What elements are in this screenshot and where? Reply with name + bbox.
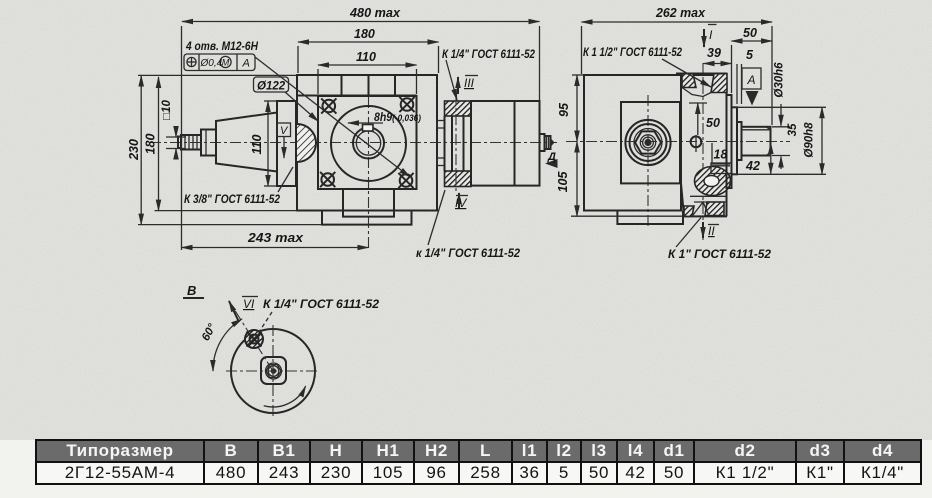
top port left wedge bbox=[682, 74, 696, 88]
roughness symbol V bbox=[277, 123, 291, 137]
dim 110 top bbox=[318, 64, 417, 66]
view arrow III bbox=[457, 77, 459, 94]
bottom port left wedge bbox=[684, 206, 694, 216]
svg-text:95: 95 bbox=[557, 102, 571, 117]
side port thread block bbox=[711, 163, 732, 174]
svg-text:Ø0,4: Ø0,4 bbox=[200, 58, 223, 69]
bolt hole 4 bbox=[398, 173, 413, 188]
spec table bbox=[35, 439, 922, 485]
svg-text:243 max: 243 max bbox=[247, 231, 304, 245]
side port under line bbox=[690, 195, 727, 197]
svg-text:50: 50 bbox=[706, 116, 720, 130]
svg-text:А: А bbox=[242, 58, 250, 70]
svg-text:39: 39 bbox=[707, 46, 721, 60]
shaft thread section bbox=[181, 135, 201, 150]
dia 122 frame bbox=[254, 77, 289, 92]
shaft bore bbox=[353, 128, 384, 159]
bolt hole 2 bbox=[399, 97, 414, 112]
shaft cone bbox=[216, 113, 277, 172]
valve box bbox=[471, 101, 540, 186]
v2 block bottom bbox=[684, 215, 727, 217]
svg-text:II: II bbox=[708, 224, 715, 238]
leader K1 1/2 bbox=[662, 59, 711, 87]
dim 480max bbox=[182, 21, 540, 23]
dim 42 bbox=[770, 143, 772, 174]
dim 105 bbox=[576, 142, 578, 217]
mounting plate bbox=[318, 96, 417, 189]
B 60 deg arc bbox=[213, 319, 242, 371]
B radial 60 centerline bbox=[229, 301, 273, 371]
bolt hole 3 bbox=[320, 172, 335, 187]
top port bore bottom bbox=[682, 88, 711, 97]
svg-text:К 1/4" ГОСТ 6111-52: К 1/4" ГОСТ 6111-52 bbox=[263, 299, 380, 311]
base bottom extension line bbox=[138, 224, 322, 226]
vertical centerline bbox=[368, 97, 370, 250]
v2 circles vertical centerline bbox=[647, 95, 649, 229]
svg-text:480 max: 480 max bbox=[349, 6, 401, 20]
v2 inner housing bbox=[621, 102, 680, 183]
B centerlines bbox=[226, 370, 320, 372]
shaft chamfer bbox=[766, 127, 771, 130]
keyway bbox=[363, 125, 374, 132]
B center square bbox=[261, 357, 286, 384]
dim 110 flange bbox=[267, 101, 269, 186]
bearing cover bbox=[727, 95, 732, 188]
bottom tab bbox=[343, 189, 394, 217]
svg-text:50: 50 bbox=[743, 26, 757, 40]
B center circles bbox=[266, 363, 282, 379]
top pad strip line bbox=[297, 95, 417, 97]
GDT frame bbox=[184, 54, 255, 71]
boss circle bbox=[331, 106, 406, 181]
fitting upper hatched flange bbox=[445, 101, 472, 116]
nut circles bbox=[625, 120, 670, 165]
hex nut bbox=[635, 131, 661, 153]
B port circle bbox=[245, 330, 263, 348]
top port face line bbox=[676, 73, 727, 75]
svg-text:110: 110 bbox=[356, 50, 376, 64]
v2 block top edge bbox=[681, 74, 727, 76]
dim 50 mid bbox=[697, 103, 699, 135]
v2 body bbox=[584, 75, 681, 211]
leader K1 bbox=[676, 218, 701, 248]
dim 180 left bbox=[158, 77, 160, 211]
dim 18 bbox=[711, 143, 713, 164]
svg-text:230: 230 bbox=[127, 139, 141, 161]
leader dia122 bbox=[285, 92, 319, 122]
dim 50 top bbox=[732, 40, 773, 42]
side port boss hatched bbox=[695, 167, 731, 196]
svg-text:180: 180 bbox=[144, 134, 158, 155]
view arrow II bbox=[702, 222, 704, 238]
svg-text:III: III bbox=[464, 76, 475, 90]
view arrow Д bbox=[545, 159, 558, 168]
dim 262max bbox=[582, 21, 773, 23]
svg-text:Д: Д bbox=[547, 151, 556, 163]
svg-text:180: 180 bbox=[354, 27, 375, 41]
svg-text:В: В bbox=[187, 283, 196, 298]
bottom port inner line bbox=[694, 201, 727, 203]
svg-text:VI: VI bbox=[243, 297, 255, 311]
dim 180 top bbox=[298, 41, 439, 43]
svg-text:К 1 1/2" ГОСТ 6111-52: К 1 1/2" ГОСТ 6111-52 bbox=[583, 47, 682, 59]
dim 243max bbox=[182, 247, 369, 249]
dim 39 bbox=[704, 63, 732, 65]
B rotation arc bbox=[264, 386, 306, 407]
leader K1/4 bottom bbox=[428, 190, 445, 245]
leader K1/4 top bbox=[446, 60, 457, 100]
view arrow IV bbox=[458, 193, 460, 208]
body bottom extension line bbox=[155, 210, 298, 212]
fitting lower hatched flange bbox=[445, 171, 472, 187]
dim 5 bbox=[736, 64, 738, 104]
bolt hole 1 bbox=[321, 98, 336, 113]
seal boss (hatched half disc) bbox=[297, 124, 316, 162]
mounting flange bbox=[277, 101, 296, 186]
leader 4xM12 to bolt bbox=[255, 57, 410, 177]
svg-text:5: 5 bbox=[746, 48, 754, 62]
svg-text:4 отв. М12-6Н: 4 отв. М12-6Н bbox=[185, 41, 258, 53]
svg-text:М: М bbox=[222, 58, 230, 68]
v2 horizontal centerline bbox=[566, 141, 790, 143]
bottom port right wedge bbox=[705, 202, 724, 216]
svg-text:18: 18 bbox=[714, 148, 728, 162]
pump body outline bbox=[297, 75, 437, 211]
bottom port drill cone bbox=[692, 202, 709, 216]
svg-text:К 3/8" ГОСТ 6111-52: К 3/8" ГОСТ 6111-52 bbox=[184, 194, 281, 206]
svg-text:Ø122: Ø122 bbox=[257, 81, 286, 93]
grease nipple bbox=[540, 134, 545, 151]
ext line right bbox=[539, 26, 541, 101]
shaft tip bbox=[178, 137, 181, 149]
fitting centerline bbox=[455, 94, 457, 194]
connector tabs bbox=[437, 121, 445, 129]
svg-text:IV: IV bbox=[455, 196, 467, 210]
svg-text:Ø90h8: Ø90h8 bbox=[804, 122, 816, 158]
dim 95 bbox=[576, 75, 578, 142]
B tick marks bbox=[267, 328, 279, 330]
B leader bbox=[259, 312, 272, 332]
svg-text:110: 110 bbox=[250, 134, 264, 154]
B big circle bbox=[231, 329, 315, 413]
top port right wedge bbox=[711, 74, 727, 93]
side fitting tube bbox=[444, 116, 446, 171]
base plate bbox=[322, 211, 412, 225]
dim 230 left bbox=[140, 76, 142, 225]
main horizontal centerline bbox=[150, 142, 557, 144]
top pad dividers bbox=[341, 75, 343, 96]
svg-text:8h9(-0,036): 8h9(-0,036) bbox=[374, 112, 421, 124]
view arrow I bbox=[703, 29, 705, 47]
v2 foot bbox=[617, 211, 683, 225]
B view arrow VI bbox=[229, 301, 239, 322]
view box A bbox=[742, 68, 761, 89]
ext line left (shaft tip plane) bbox=[181, 26, 183, 250]
svg-text:Ø30h6: Ø30h6 bbox=[774, 62, 786, 98]
shaft collar bbox=[201, 130, 216, 156]
valve box divider bbox=[514, 101, 516, 186]
svg-text:262 max: 262 max bbox=[655, 6, 706, 20]
keyway leader bbox=[348, 122, 383, 124]
shaft bbox=[742, 127, 771, 156]
svg-text:К 1/4" ГОСТ 6111-52: К 1/4" ГОСТ 6111-52 bbox=[442, 49, 536, 61]
svg-text:к 1/4" ГОСТ 6111-52: к 1/4" ГОСТ 6111-52 bbox=[416, 248, 521, 260]
v2 port centerline bbox=[702, 63, 704, 240]
leader K3/8 bbox=[278, 167, 293, 192]
svg-text:105: 105 bbox=[556, 171, 570, 193]
svg-text:42: 42 bbox=[745, 159, 760, 173]
svg-text:К 1" ГОСТ 6111-52: К 1" ГОСТ 6111-52 bbox=[668, 249, 772, 261]
svg-text:□10: □10 bbox=[161, 100, 173, 120]
svg-text:35: 35 bbox=[787, 123, 799, 136]
small hole on axis bbox=[691, 135, 702, 152]
v2 port block right edge bbox=[726, 75, 728, 216]
spigot bbox=[732, 107, 738, 174]
svg-text:А: А bbox=[747, 73, 756, 87]
